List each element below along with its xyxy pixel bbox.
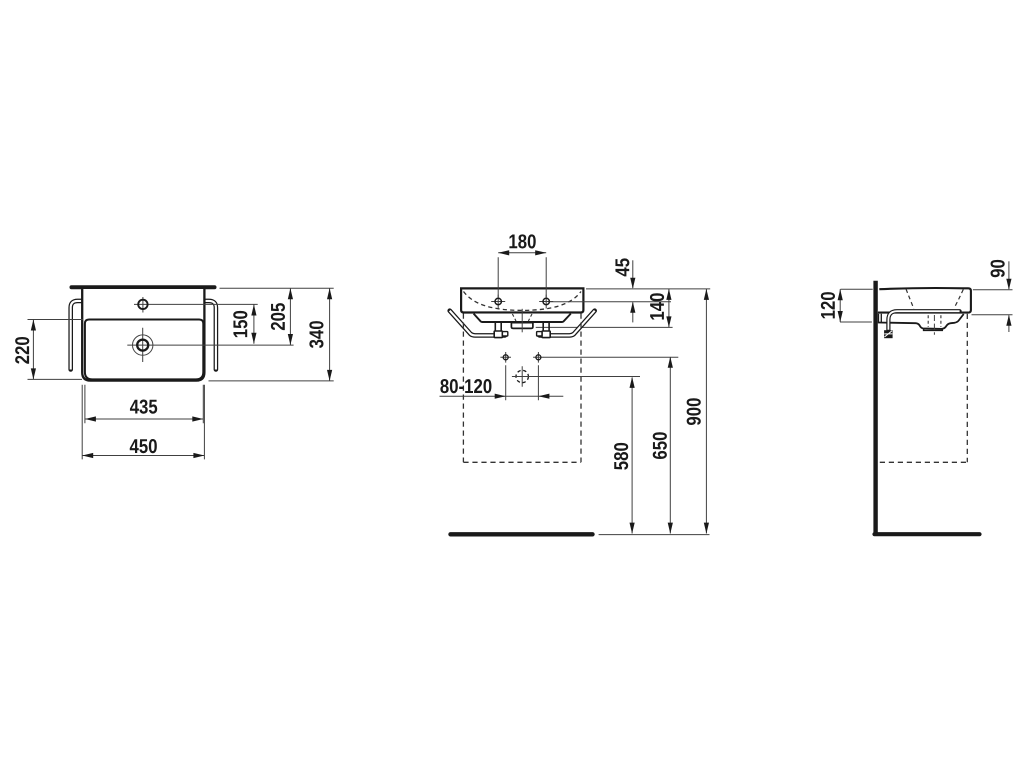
drain cap [511, 323, 533, 329]
floor line thick [451, 532, 593, 536]
drain target circle [516, 370, 528, 382]
front basin body [461, 288, 583, 312]
side wall fixing bracket [879, 314, 882, 323]
dim 45 lower arrow [632, 302, 634, 322]
side bowl underside [878, 314, 964, 329]
dim 220 line [32, 320, 34, 380]
dim 450 extension lines [82, 385, 204, 460]
dim 650 label [653, 432, 667, 459]
dim 205 line [289, 288, 291, 345]
drain crosshair lines [127, 328, 293, 362]
dim 180 line [498, 252, 546, 254]
dim 180 label [509, 234, 535, 248]
dim 580 line [631, 378, 633, 534]
dim 150 label [233, 311, 247, 337]
dim 140 line [668, 289, 670, 328]
dim 340 top extension line [220, 287, 334, 289]
dim 205 label [271, 303, 285, 330]
wall edge bar [72, 285, 215, 289]
right towel rail [204, 301, 216, 370]
dim 140 label [650, 293, 664, 319]
dim 90 upper arrow [1008, 261, 1010, 289]
dim 340 bottom extension line [209, 380, 334, 382]
dim 150 line [253, 305, 255, 344]
extension: fixing holes to 650 dim [544, 356, 679, 358]
basin center line [521, 309, 523, 333]
dim 650 line [669, 357, 671, 533]
dim 80-120 label [440, 379, 491, 393]
dim 900 label [687, 398, 701, 425]
bowl underside [474, 314, 571, 322]
left fixing bolt [495, 323, 501, 331]
dim 90 label [991, 260, 1005, 277]
floor extension line [599, 534, 710, 536]
dim 340 line [329, 288, 331, 381]
front basin interior dashed rim [464, 292, 582, 311]
drain outer circle [133, 335, 153, 355]
side towel rail [888, 311, 959, 330]
dim 435 label [130, 400, 157, 414]
left tap hole crosshair [491, 295, 505, 309]
dim 45 extension line (tap level) [550, 301, 672, 303]
tap hole crosshair lines [134, 297, 258, 313]
dim 120 extension lines [840, 289, 873, 322]
floor line side [875, 532, 980, 536]
dim 900 line [705, 289, 707, 534]
dim 120 label [821, 292, 835, 318]
dim 900 top extension line [586, 288, 710, 290]
extension: drain target to 580 dim [531, 376, 640, 378]
right fixing bolt [543, 323, 549, 331]
furniture dashed outline front [463, 314, 581, 463]
side basin body [878, 288, 971, 313]
side rail foot block [884, 330, 893, 338]
basin bowl (inner rounded rect) [85, 320, 203, 380]
dim 180 extension verticals [498, 257, 546, 298]
dim 90 lower arrow [1008, 315, 1010, 332]
right fixing hole crosshair [533, 352, 544, 363]
dim 220 label [15, 337, 29, 364]
left front towel rail [450, 311, 505, 336]
dim 435 line [85, 418, 203, 420]
tap hole [138, 300, 147, 309]
furniture dashed outline side [880, 314, 968, 463]
right tap hole crosshair [539, 295, 553, 309]
drain inner circle [137, 340, 148, 351]
dim 120 line [839, 289, 841, 322]
dim 580 label [614, 443, 628, 470]
dim 450 line [82, 455, 204, 457]
dim 435 extension lines [85, 385, 203, 423]
dim 80-120 extension verticals [506, 365, 539, 400]
wall line [873, 281, 877, 536]
drain hidden dashes [512, 314, 532, 321]
left towel rail [71, 301, 83, 370]
dim 45 upper arrow [632, 260, 634, 288]
right front towel rail [539, 311, 594, 336]
dim 80-120 line [440, 395, 564, 397]
left fixing hole crosshair [500, 352, 511, 363]
dim 450 label [130, 439, 157, 453]
dim 90 extension lines [972, 290, 1013, 315]
dim 45 label [615, 258, 629, 276]
basin outer outline [82, 289, 204, 381]
side drain pipe hidden dashes [928, 315, 941, 327]
side drain center line [933, 315, 935, 335]
dim 340 label [309, 321, 323, 348]
dim 220 extension lines [28, 320, 84, 380]
side trap plate [924, 328, 943, 330]
dim 140 bottom extension line [536, 326, 673, 328]
side basin interior dashed [906, 289, 963, 309]
